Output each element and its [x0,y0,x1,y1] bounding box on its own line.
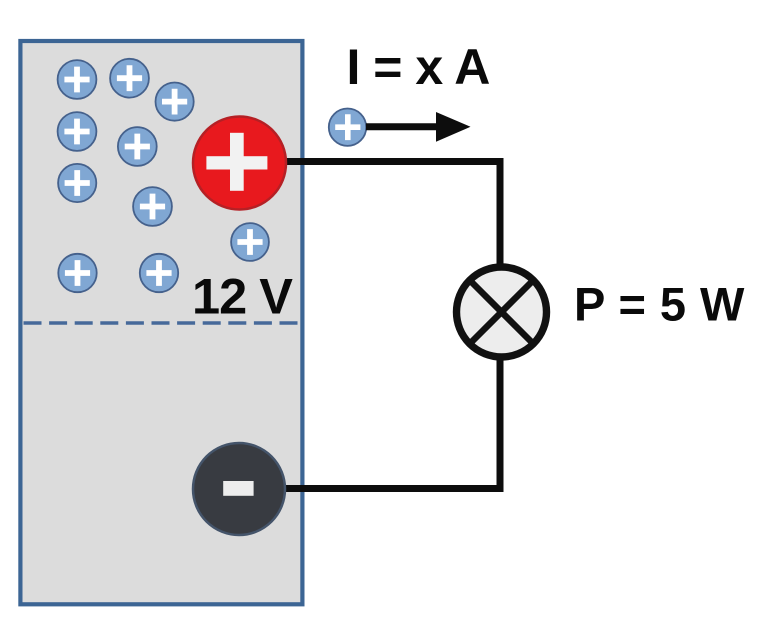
label 12 V [192,268,293,325]
negative terminal [193,443,285,535]
charge q4 [58,112,97,151]
current direction arrow [366,112,471,142]
lamp L1 [457,267,547,357]
charge q8 [231,223,269,261]
svg-text:12 V: 12 V [192,268,293,325]
moving charge on wire [329,109,366,146]
charge q1 [58,60,97,99]
charge q9 [58,254,96,292]
wire bottom segment (lamp to negative terminal) [284,345,500,489]
label P = 5 W [574,278,745,331]
svg-text:P = 5 W: P = 5 W [574,278,745,331]
charge q2 [110,59,149,98]
charge q5 [118,127,157,166]
charge q10 [140,254,178,292]
svg-text:I = x A: I = x A [347,39,490,95]
charge q6 [58,164,96,202]
wire top segment (positive terminal to lamp) [284,162,500,281]
label I = x A [347,39,490,95]
charge q7 [133,187,172,226]
charge q3 [156,83,194,121]
battery cell body [20,41,302,604]
electrolyte level dashed line [24,321,301,325]
positive terminal [193,117,286,210]
